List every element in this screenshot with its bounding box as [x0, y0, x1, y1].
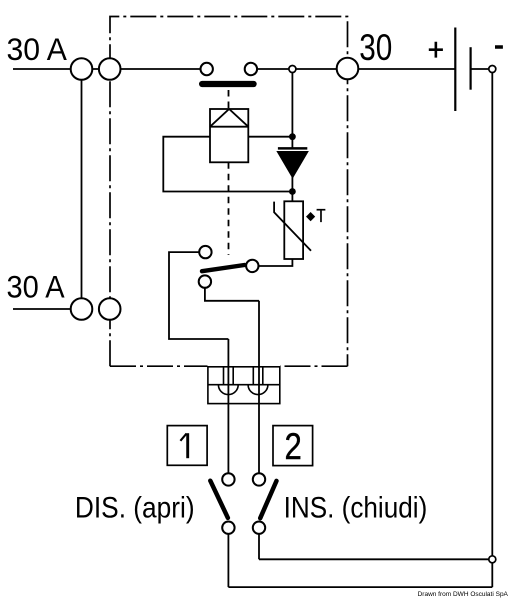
- svg-text:30 A: 30 A: [7, 269, 65, 305]
- wire: relay contact output to battery +: [251, 68, 455, 70]
- relay coil U1 box: [210, 109, 248, 162]
- battery B1 positive plate: [454, 28, 456, 112]
- relay contact circle left: [201, 63, 213, 75]
- wire: negative rail down right side: [491, 69, 493, 587]
- label 1 box: [167, 426, 207, 466]
- external switch contact INS bottom: [253, 522, 265, 534]
- wire: pin 2 down to external switch: [258, 301, 260, 480]
- svg-text:Drawn from DWH Osculati SpA: Drawn from DWH Osculati SpA: [418, 591, 509, 598]
- relay unit border bottom left segment: [110, 365, 208, 367]
- wire: coil right lead: [248, 136, 292, 138]
- wire: switch upper-left contact to pin 1: [169, 252, 228, 339]
- diode D1 cathode lead: [291, 69, 293, 148]
- coil triangle: [210, 109, 248, 127]
- battery - symbol: [495, 45, 503, 49]
- wire: INS lower contact down: [258, 528, 260, 560]
- wire: left fuse link vertical: [81, 69, 83, 309]
- relay contact bar: [199, 81, 257, 87]
- external switch INS blade: [260, 481, 276, 518]
- svg-text:T: T: [316, 205, 325, 226]
- relay contact circle right: [245, 63, 257, 75]
- svg-text:30 A: 30 A: [7, 31, 67, 67]
- connector inner line: [208, 384, 280, 386]
- connector terminal 1 slot: [224, 367, 234, 385]
- wire: switch lower-left contact to pin 2: [205, 282, 259, 301]
- terminal circle 30A top inner: [99, 58, 121, 80]
- wire: pin 1 down to external switch: [227, 339, 229, 479]
- node circle negative rail junction: [489, 556, 496, 563]
- thermistor label diamond: [306, 212, 315, 221]
- coil inner line: [210, 126, 248, 128]
- terminal circle 30A bottom outer: [71, 298, 93, 320]
- dashed actuator link (upper): [228, 90, 230, 109]
- connector terminal 2 socket arc: [248, 385, 268, 395]
- junction dot diode bottom: [289, 188, 296, 195]
- svg-text:30: 30: [359, 27, 392, 68]
- wire: DIS return bottom: [228, 586, 492, 588]
- junction dot diode top: [289, 133, 296, 140]
- wire: DIS lower contact down: [227, 528, 229, 587]
- dashed actuator link (lower): [228, 162, 230, 255]
- svg-text:2: 2: [285, 426, 302, 467]
- wire: coil left lead: [163, 137, 292, 192]
- connector J1 outer box: [208, 367, 280, 404]
- connector terminal 2 slot: [253, 367, 262, 385]
- external switch DIS blade: [210, 481, 228, 518]
- external switch contact INS top: [253, 473, 265, 485]
- diode D1 cathode bar: [278, 147, 307, 150]
- relay unit border bottom right segment: [280, 365, 348, 367]
- external switch contact DIS top: [222, 473, 234, 485]
- svg-text:INS. (chiudi): INS. (chiudi): [284, 492, 428, 525]
- svg-text:DIS. (apri): DIS. (apri): [75, 492, 195, 525]
- battery + symbol: [429, 42, 443, 58]
- diode D1 triangle: [278, 152, 307, 177]
- wire: bottom 30A terminal lead: [13, 308, 82, 310]
- terminal circle 30: [337, 58, 359, 80]
- wire: thermistor bottom to switch common: [252, 259, 292, 266]
- wire: battery feed to terminal 30A (top): [13, 68, 207, 70]
- thermistor RT1 body: [284, 201, 303, 259]
- internal switch contact upper-left: [199, 246, 211, 258]
- node circle top junction: [289, 66, 296, 73]
- wire: battery - to node: [471, 68, 493, 70]
- node circle battery negative: [489, 66, 496, 73]
- terminal circle 30A bottom inner: [99, 298, 121, 320]
- diode D1 anode lead: [291, 177, 293, 202]
- label 1: [186, 433, 189, 458]
- terminal circle 30A top outer: [71, 58, 93, 80]
- internal switch blade S1: [202, 265, 244, 271]
- external switch contact DIS bottom: [222, 522, 234, 534]
- wire: INS return: [259, 558, 492, 560]
- battery B1 negative plate: [470, 47, 472, 89]
- internal switch contact lower-left: [199, 275, 211, 287]
- internal switch contact right: [246, 260, 258, 272]
- relay unit dash-dot border box: [110, 17, 348, 367]
- label 2 box: [273, 426, 313, 466]
- connector terminal 1 socket arc: [218, 385, 238, 395]
- thermistor RT1 diagonal stroke: [274, 202, 311, 251]
